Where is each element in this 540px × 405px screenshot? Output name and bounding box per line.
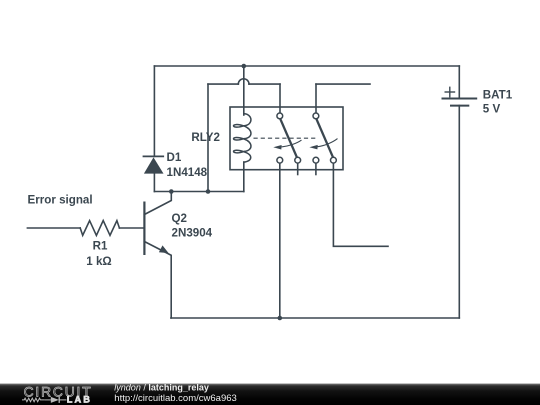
svg-text:D1: D1: [167, 151, 182, 164]
svg-text:5 V: 5 V: [483, 103, 501, 116]
svg-text:R1: R1: [93, 240, 108, 253]
svg-text:1N4148: 1N4148: [167, 166, 208, 179]
svg-text:1 kΩ: 1 kΩ: [86, 255, 111, 268]
svg-text:Error signal: Error signal: [28, 193, 93, 206]
svg-text:BAT1: BAT1: [483, 89, 513, 102]
svg-text:RLY2: RLY2: [191, 131, 220, 144]
svg-text:2N3904: 2N3904: [172, 227, 213, 240]
svg-text:lyndon / latching_relay: lyndon / latching_relay: [114, 383, 209, 393]
svg-text:Q2: Q2: [172, 212, 187, 225]
svg-text:LAB: LAB: [67, 394, 92, 404]
svg-text:http://circuitlab.com/cw6a963: http://circuitlab.com/cw6a963: [114, 393, 237, 404]
